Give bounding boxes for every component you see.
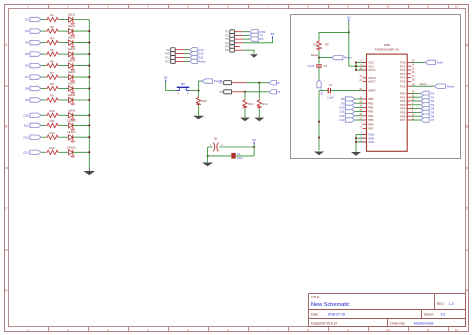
svg-text:LED3: LED3 <box>68 36 76 40</box>
svg-text:D5: D5 <box>25 52 29 56</box>
svg-text:REV:: REV: <box>437 302 445 306</box>
svg-text:PB7: PB7 <box>368 127 374 131</box>
svg-text:C3: C3 <box>237 152 241 156</box>
svg-text:D12: D12 <box>23 135 29 139</box>
svg-text:LED12: LED12 <box>67 145 76 149</box>
svg-text:P1: P1 <box>225 30 229 34</box>
svg-text:5V: 5V <box>271 32 275 36</box>
svg-text:R1: R1 <box>50 13 54 17</box>
svg-text:B1: B1 <box>214 136 218 140</box>
svg-text:TITLE:: TITLE: <box>311 295 320 299</box>
svg-text:1.0: 1.0 <box>449 302 454 306</box>
svg-text:LED11: LED11 <box>67 130 76 134</box>
svg-text:LED9: LED9 <box>68 108 76 112</box>
svg-text:5V: 5V <box>347 15 351 19</box>
svg-text:P2: P2 <box>225 33 229 37</box>
svg-text:LED10: LED10 <box>67 118 76 122</box>
svg-text:R6: R6 <box>50 59 54 63</box>
svg-text:P3: P3 <box>225 37 229 41</box>
svg-text:LED7: LED7 <box>68 82 76 86</box>
svg-text:PC5: PC5 <box>400 80 406 84</box>
svg-text:12: 12 <box>455 4 458 8</box>
svg-text:ADC7: ADC7 <box>368 80 376 84</box>
svg-text:R7: R7 <box>50 71 54 75</box>
svg-text:D3: D3 <box>25 29 29 33</box>
svg-text:LED2: LED2 <box>68 24 76 28</box>
svg-text:AREF: AREF <box>368 89 376 93</box>
svg-text:PD7: PD7 <box>400 118 406 122</box>
svg-text:P9: P9 <box>167 48 171 52</box>
svg-text:10: 10 <box>387 4 390 8</box>
svg-text:Sheet:: Sheet: <box>424 312 434 316</box>
svg-text:C2: C2 <box>324 64 328 68</box>
svg-text:Reset: Reset <box>420 82 427 86</box>
svg-text:Electronoobs: Electronoobs <box>414 321 434 325</box>
svg-text:ATMEGA328P-AU: ATMEGA328P-AU <box>375 47 400 51</box>
svg-text:P10: P10 <box>165 52 170 56</box>
svg-text:EasyEDA V5.6.10: EasyEDA V5.6.10 <box>311 321 337 325</box>
svg-text:LED5: LED5 <box>68 59 76 63</box>
svg-text:5V: 5V <box>164 76 168 80</box>
svg-text:P5: P5 <box>225 45 229 49</box>
svg-text:10K: 10K <box>313 43 318 47</box>
svg-text:D13: D13 <box>339 118 345 122</box>
svg-text:Reset: Reset <box>447 84 455 88</box>
svg-text:R12: R12 <box>49 131 55 135</box>
svg-text:P6: P6 <box>225 48 229 52</box>
svg-text:Date:: Date: <box>311 312 319 316</box>
svg-text:D2: D2 <box>25 18 29 22</box>
svg-text:R11: R11 <box>49 119 54 123</box>
svg-text:C1: C1 <box>329 83 333 87</box>
svg-text:D7: D7 <box>431 118 435 122</box>
svg-text:D9: D9 <box>25 98 29 102</box>
svg-text:New Schematic: New Schematic <box>311 302 350 308</box>
svg-text:R13: R13 <box>248 102 254 106</box>
svg-text:R16: R16 <box>202 99 208 103</box>
svg-text:D10: D10 <box>23 113 29 117</box>
svg-text:LED4: LED4 <box>68 47 76 51</box>
svg-text:R5: R5 <box>50 48 54 52</box>
svg-text:P7: P7 <box>220 81 224 85</box>
svg-text:2018-07-19: 2018-07-19 <box>328 312 345 316</box>
svg-text:R13: R13 <box>49 146 55 150</box>
svg-text:1/1: 1/1 <box>441 312 446 316</box>
svg-text:P12: P12 <box>165 60 170 64</box>
svg-text:11: 11 <box>427 4 430 8</box>
svg-text:12: 12 <box>455 328 458 332</box>
svg-text:10uF: 10uF <box>237 156 243 160</box>
svg-text:D13: D13 <box>23 150 29 154</box>
svg-text:R10: R10 <box>49 109 55 113</box>
svg-text:Push: Push <box>437 61 444 65</box>
svg-text:R9: R9 <box>50 94 54 98</box>
svg-text:R14: R14 <box>262 102 268 106</box>
svg-text:R8: R8 <box>50 82 54 86</box>
svg-text:D7: D7 <box>25 75 29 79</box>
svg-text:LED6: LED6 <box>68 70 76 74</box>
svg-text:B3: B3 <box>181 82 185 86</box>
svg-text:R2: R2 <box>325 43 329 47</box>
svg-text:P8: P8 <box>220 90 224 94</box>
svg-text:0.1uF: 0.1uF <box>308 64 315 68</box>
svg-text:B: B <box>278 81 280 85</box>
svg-text:LED8: LED8 <box>68 93 76 97</box>
svg-text:D4: D4 <box>25 41 29 45</box>
svg-text:PC6: PC6 <box>400 84 406 88</box>
svg-text:D11: D11 <box>24 124 30 128</box>
svg-text:Reset: Reset <box>311 53 318 57</box>
svg-text:RX: RX <box>259 37 263 41</box>
svg-text:Drawn By:: Drawn By: <box>390 321 405 325</box>
svg-text:DTR: DTR <box>319 89 323 95</box>
svg-text:P4: P4 <box>225 41 229 45</box>
svg-text:Reset: Reset <box>344 56 352 60</box>
svg-text:D8: D8 <box>25 87 29 91</box>
svg-text:GND: GND <box>368 140 374 144</box>
svg-text:R4: R4 <box>50 36 54 40</box>
svg-text:0.1uF: 0.1uF <box>327 95 334 99</box>
svg-text:11: 11 <box>427 328 430 332</box>
svg-text:D6: D6 <box>25 64 29 68</box>
svg-text:Reset: Reset <box>198 60 206 64</box>
svg-text:R3: R3 <box>50 25 54 29</box>
svg-text:AVCC: AVCC <box>368 68 376 72</box>
svg-text:LED1: LED1 <box>68 13 76 17</box>
svg-text:P11: P11 <box>165 56 170 60</box>
svg-text:10: 10 <box>387 328 390 332</box>
svg-text:5V: 5V <box>252 138 256 142</box>
